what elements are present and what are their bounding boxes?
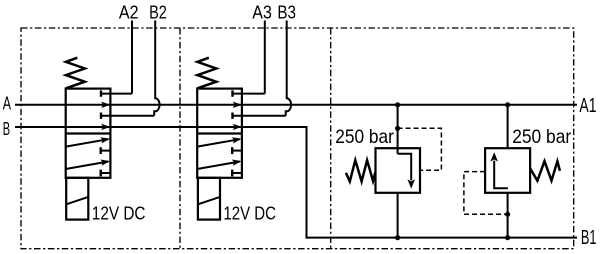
valve V1 port B2 stub (blocked) bbox=[101, 115, 154, 117]
relief valve RV1 spring bbox=[346, 160, 376, 181]
relief valve RV2 flow arrow bbox=[494, 161, 508, 189]
wire port A horizontal line bbox=[15, 104, 577, 106]
svg-text:B: B bbox=[3, 118, 10, 139]
relief valve RV1 pilot line (dashed) bbox=[398, 128, 442, 170]
svg-text:250 bar: 250 bar bbox=[335, 126, 394, 148]
relief valve RV1 flow arrow bbox=[398, 154, 412, 180]
solenoid Y2 diagonal bbox=[198, 197, 220, 204]
valve V1 body bbox=[66, 89, 111, 178]
svg-text:12V DC: 12V DC bbox=[223, 203, 276, 224]
valve V2 position divider bbox=[197, 132, 242, 134]
junction dot A1/RV2 bbox=[505, 102, 510, 107]
svg-text:12V DC: 12V DC bbox=[92, 203, 146, 224]
valve V1 crossover arrow lower bbox=[66, 162, 109, 170]
junction dot A1/RV1 bbox=[395, 102, 400, 107]
svg-text:A: A bbox=[3, 92, 12, 113]
relief valve RV1 inlet drop wire bbox=[397, 105, 399, 154]
svg-text:A3: A3 bbox=[252, 1, 272, 22]
wire port B horizontal line bbox=[15, 127, 577, 238]
valve V2 blocked port lower (pos2) bbox=[233, 172, 242, 174]
solenoid Y1 box bbox=[66, 178, 88, 220]
valve V2 blocked port upper (pos2) bbox=[233, 150, 242, 152]
valve V2 body bbox=[197, 89, 242, 178]
junction dot RV2 pilot branch bbox=[505, 212, 510, 217]
valve V2 return spring bbox=[197, 58, 216, 89]
junction dot RV1/B1 bbox=[395, 235, 400, 240]
enclosure divider before relief section bbox=[330, 28, 332, 249]
valve V1 crossover arrow upper bbox=[66, 139, 109, 146]
valve V1 flow arrow A bbox=[101, 102, 110, 108]
relief valve RV2 body bbox=[485, 148, 530, 193]
svg-text:B3: B3 bbox=[277, 1, 296, 22]
relief valve RV2 inlet drop wire bbox=[507, 193, 509, 238]
valve V2 crossover arrow lower bbox=[197, 162, 240, 170]
svg-text:B2: B2 bbox=[149, 1, 167, 22]
junction dot RV2/B1 bbox=[505, 235, 510, 240]
valve V1 flow arrow B bbox=[101, 124, 110, 130]
relief valve RV2 pilot line (dashed) bbox=[464, 172, 508, 215]
valve V2 port A3 stub (blocked) bbox=[233, 93, 265, 95]
svg-text:A2: A2 bbox=[119, 1, 139, 22]
wire B3 vertical with jump over A bbox=[286, 21, 291, 116]
junction dot RV1 pilot branch bbox=[395, 126, 400, 131]
svg-text:250 bar: 250 bar bbox=[512, 126, 571, 148]
relief valve RV2 spring bbox=[530, 161, 560, 181]
wire B2 vertical with jump over A bbox=[154, 21, 159, 116]
valve V2 port B3 stub (blocked) bbox=[233, 115, 286, 117]
valve V1 position divider bbox=[66, 132, 111, 134]
valve V1 blocked port upper (pos2) bbox=[101, 150, 110, 152]
valve V2 crossover arrow upper bbox=[197, 139, 240, 146]
valve V1 blocked port lower (pos2) bbox=[101, 172, 110, 174]
valve V2 flow arrow B bbox=[233, 124, 242, 130]
wire A3 vertical bbox=[264, 21, 266, 94]
solenoid Y2 box bbox=[198, 178, 220, 220]
valve V1 return spring bbox=[66, 58, 85, 89]
svg-text:A1: A1 bbox=[579, 95, 596, 117]
valve V2 flow arrow A bbox=[233, 102, 242, 108]
relief valve RV2 outlet drop wire bbox=[507, 105, 509, 148]
relief valve RV1 body bbox=[376, 148, 421, 193]
solenoid Y1 diagonal bbox=[66, 197, 88, 204]
relief valve RV1 outlet drop wire bbox=[397, 193, 399, 238]
svg-text:B1: B1 bbox=[581, 227, 597, 249]
enclosure divider between valve sections bbox=[179, 28, 181, 249]
valve V1 port A2 stub (blocked) bbox=[101, 93, 132, 95]
wire A2 vertical bbox=[131, 21, 133, 94]
